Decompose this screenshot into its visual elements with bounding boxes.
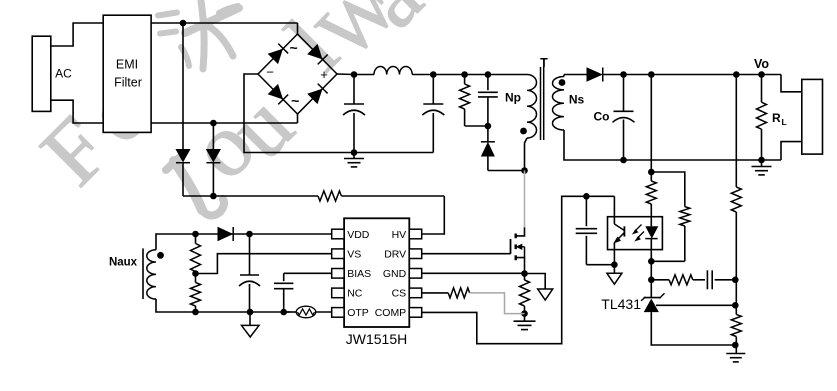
- svg-text:VDD: VDD: [347, 229, 370, 241]
- svg-text:COMP: COMP: [375, 307, 407, 319]
- svg-text:−: −: [266, 65, 274, 80]
- svg-text:Ns: Ns: [569, 93, 585, 107]
- svg-text:HV: HV: [392, 229, 407, 241]
- svg-text:VS: VS: [347, 249, 361, 261]
- svg-text:BIAS: BIAS: [347, 268, 371, 280]
- svg-text:Filter: Filter: [114, 76, 142, 90]
- svg-text:CS: CS: [392, 288, 407, 300]
- svg-text:EMI: EMI: [116, 58, 138, 72]
- svg-text:R: R: [772, 111, 781, 125]
- svg-text:T: T: [540, 56, 548, 70]
- svg-text:Co: Co: [594, 110, 610, 124]
- svg-text:NC: NC: [347, 288, 363, 300]
- svg-text:~: ~: [291, 93, 299, 109]
- svg-text:~: ~: [290, 40, 298, 56]
- svg-text:OTP: OTP: [347, 307, 369, 319]
- svg-text:DRV: DRV: [384, 249, 406, 261]
- svg-text:GND: GND: [383, 268, 407, 280]
- svg-text:+: +: [320, 67, 328, 82]
- svg-text:JW1515H: JW1515H: [346, 331, 407, 347]
- svg-text:TL431: TL431: [601, 296, 641, 312]
- svg-text:Vo: Vo: [754, 57, 769, 71]
- svg-text:Naux: Naux: [109, 257, 138, 269]
- svg-text:AC: AC: [55, 67, 72, 81]
- svg-text:L: L: [782, 117, 787, 127]
- svg-text:Np: Np: [505, 91, 521, 105]
